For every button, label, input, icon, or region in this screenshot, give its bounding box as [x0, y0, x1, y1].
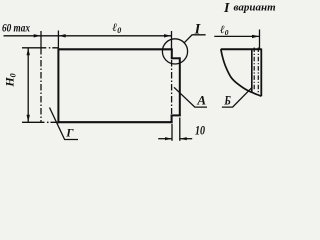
strip bottom: [171, 114, 181, 116]
H0 ext top: [22, 47, 46, 49]
arrow l0 right: [164, 34, 171, 37]
strip right edge: [179, 57, 181, 115]
corner step horizontal: [171, 57, 180, 59]
10 ext lines: [171, 124, 173, 141]
ext line x=41 solid top: [40, 31, 42, 48]
svg-text:60 max: 60 max: [2, 23, 30, 35]
right view: strip fold dash-dots: [253, 48, 255, 92]
G leader + shelf: [50, 108, 79, 140]
right view: ext line: [259, 30, 261, 50]
sheet bottom edge: [57, 121, 172, 123]
ext line x=171.3 top: [171, 31, 173, 49]
ext line x=58.4 above sheet: [57, 31, 59, 49]
10 dim lines: [158, 138, 172, 140]
right view: top edge: [221, 48, 261, 50]
svg-text:Г: Г: [65, 126, 74, 140]
right view: roll curve: [221, 49, 261, 96]
right view: dim line: [214, 35, 259, 37]
svg-text:10: 10: [195, 123, 206, 137]
sheet left edge: [57, 48, 59, 123]
corner step vertical: [171, 49, 173, 59]
H0 dim line: [27, 48, 29, 123]
arrow l0 left: [58, 34, 65, 37]
arrow 10 right-pointing-left: [180, 137, 187, 140]
arrow 60max right: [34, 34, 41, 37]
arrow H0 up: [27, 48, 30, 55]
B leader + shelf: [222, 87, 253, 107]
right view: strip left edge: [251, 49, 253, 92]
fold edge bottom segment: [171, 115, 173, 123]
svg-text:A: A: [196, 92, 206, 107]
H0 ext bottom: [22, 121, 45, 123]
dim line 60max + l0: [4, 35, 172, 37]
arrow L0 right view: [252, 35, 259, 38]
sheet top edge: [58, 48, 172, 50]
fold line left (dash-dot): [40, 48, 42, 122]
arrow 10 left-pointing-right: [165, 137, 172, 140]
circle leader + shelf: [184, 35, 206, 43]
A leader + shelf: [174, 87, 207, 107]
arrow H0 down: [27, 115, 30, 122]
fold line right (dash-dot): [171, 60, 173, 114]
right view: strip right edge: [260, 49, 262, 97]
svg-text:Б: Б: [224, 93, 231, 107]
svg-text:вариант: вариант: [234, 2, 277, 14]
svg-text:I: I: [223, 1, 230, 16]
detail circle I: [162, 39, 187, 64]
